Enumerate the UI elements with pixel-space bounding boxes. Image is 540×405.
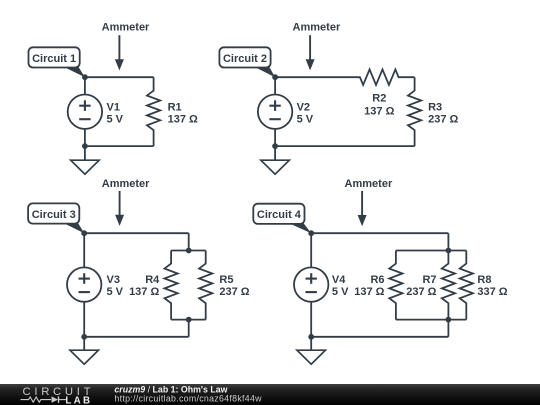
svg-text:Ammeter: Ammeter (102, 22, 150, 34)
svg-text:Circuit 2: Circuit 2 (223, 53, 267, 65)
svg-text:137 Ω: 137 Ω (129, 286, 159, 298)
svg-text:137 Ω: 137 Ω (354, 286, 384, 298)
svg-text:V2: V2 (297, 101, 310, 113)
svg-text:R8: R8 (477, 274, 491, 286)
svg-text:V4: V4 (332, 274, 346, 286)
svg-text:R2: R2 (372, 93, 386, 105)
svg-text:R7: R7 (422, 274, 436, 286)
svg-text:R5: R5 (219, 274, 233, 286)
svg-text:237 Ω: 237 Ω (428, 114, 458, 126)
svg-text:R1: R1 (168, 101, 182, 113)
svg-text:5 V: 5 V (332, 286, 349, 298)
svg-text:5 V: 5 V (297, 114, 314, 126)
svg-text:137 Ω: 137 Ω (168, 114, 198, 126)
svg-text:337 Ω: 337 Ω (477, 286, 507, 298)
svg-text:Circuit 4: Circuit 4 (257, 209, 302, 221)
svg-text:237 Ω: 237 Ω (406, 286, 436, 298)
svg-text:5 V: 5 V (107, 114, 124, 126)
svg-text:Ammeter: Ammeter (345, 178, 393, 190)
svg-text:Ammeter: Ammeter (293, 22, 341, 34)
svg-text:Ammeter: Ammeter (102, 178, 150, 190)
svg-text:V3: V3 (107, 274, 120, 286)
svg-text:R6: R6 (370, 274, 384, 286)
svg-text:237 Ω: 237 Ω (219, 286, 249, 298)
svg-text:V1: V1 (107, 101, 120, 113)
svg-text:Circuit 3: Circuit 3 (32, 209, 76, 221)
svg-text:LAB: LAB (65, 396, 92, 405)
svg-text:R4: R4 (145, 274, 160, 286)
svg-text:5 V: 5 V (107, 286, 124, 298)
svg-text:http://circuitlab.com/cnaz64f8: http://circuitlab.com/cnaz64f8kf44w (114, 394, 262, 404)
svg-text:137 Ω: 137 Ω (364, 106, 394, 118)
svg-text:Circuit 1: Circuit 1 (32, 53, 76, 65)
svg-text:R3: R3 (428, 101, 442, 113)
